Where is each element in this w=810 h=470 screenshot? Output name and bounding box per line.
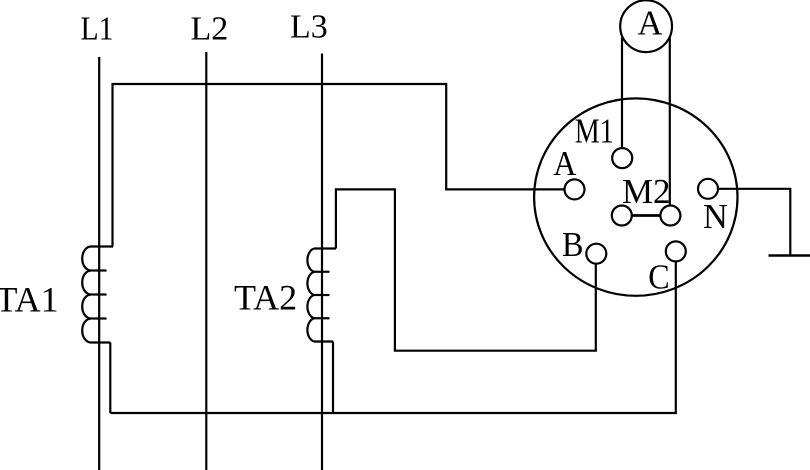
wire ammeter to terminal M1 [621, 38, 623, 149]
svg-text:A: A [553, 144, 577, 183]
wire TA2 secondary bottom lead [332, 342, 334, 414]
jumper between M2 terminals [632, 214, 661, 217]
svg-text:M1: M1 [575, 112, 614, 151]
wire terminal N to ground [718, 189, 790, 256]
terminal M2 right [660, 206, 680, 226]
ground [769, 254, 810, 257]
wire ammeter to terminal M2 [669, 37, 671, 205]
terminal C [666, 241, 686, 261]
current transformer TA1 winding [82, 247, 113, 343]
svg-text:L3: L3 [290, 9, 328, 46]
terminal M2 left [612, 206, 632, 226]
wire bottom common (TA1/TA2 secondary return to switch terminal C) [110, 261, 676, 413]
phase line L1 [98, 57, 100, 470]
ammeter PA [620, 0, 672, 52]
terminal A [565, 179, 585, 199]
terminal B [586, 244, 606, 264]
wire TA1 secondary top lead to switch terminal A [113, 84, 565, 247]
svg-text:M2: M2 [622, 172, 671, 211]
wire TA1 secondary bottom lead [109, 343, 111, 414]
phase line L2 [205, 52, 207, 470]
switch SA body (selector circle) [534, 98, 737, 295]
svg-text:B: B [562, 225, 584, 264]
svg-text:TA1: TA1 [0, 280, 59, 320]
svg-text:N: N [703, 197, 728, 236]
terminal M1 [612, 148, 632, 168]
svg-text:TA2: TA2 [234, 278, 297, 318]
svg-text:L1: L1 [81, 11, 114, 48]
svg-text:C: C [648, 257, 669, 296]
wire TA2 secondary top lead to switch terminal B [336, 189, 596, 350]
svg-text:A: A [638, 4, 664, 43]
current transformer TA2 winding [307, 249, 336, 342]
svg-text:L2: L2 [191, 11, 229, 48]
terminal N [698, 179, 718, 199]
phase line L3 [321, 54, 323, 470]
